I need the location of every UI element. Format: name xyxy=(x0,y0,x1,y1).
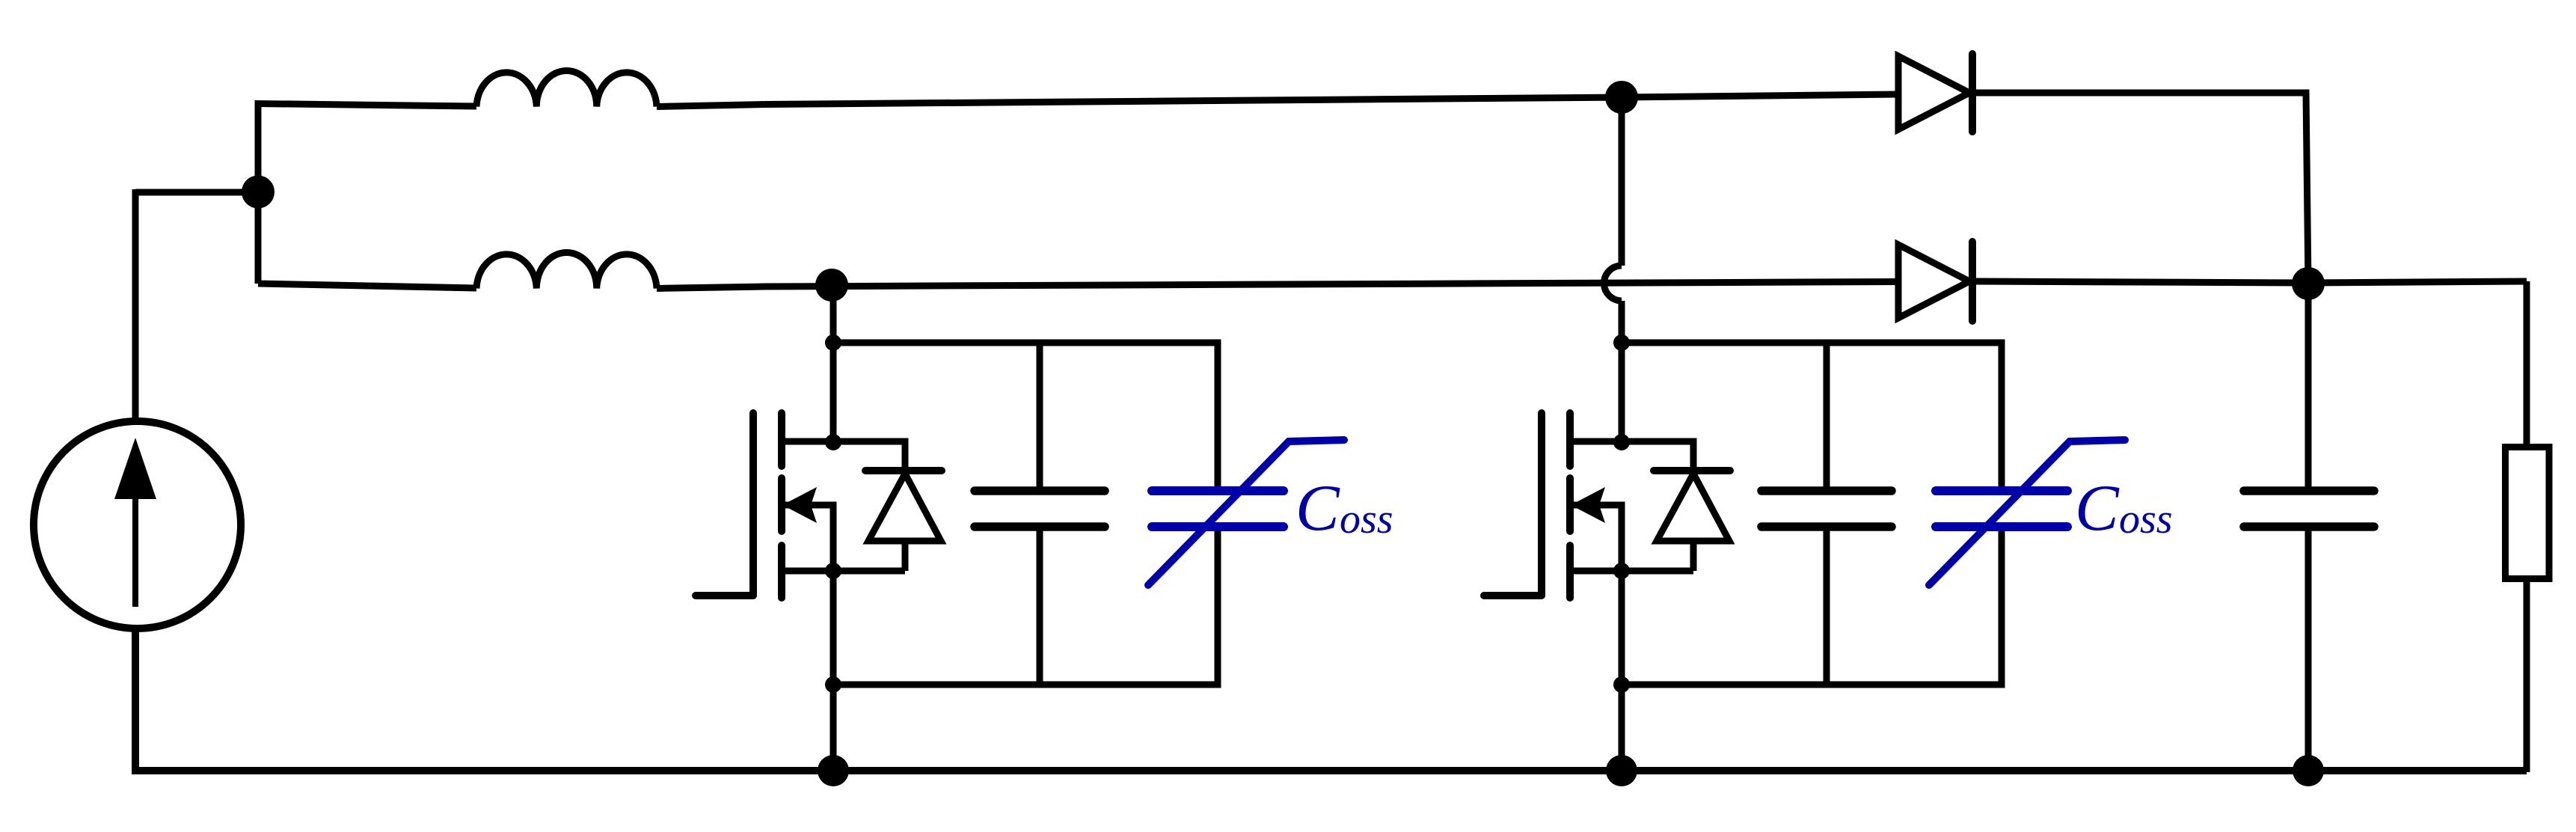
svg-text:oss: oss xyxy=(1340,496,1393,542)
svg-text:C: C xyxy=(1295,472,1340,545)
svg-text:oss: oss xyxy=(2119,496,2173,542)
svg-text:C: C xyxy=(2075,472,2120,545)
